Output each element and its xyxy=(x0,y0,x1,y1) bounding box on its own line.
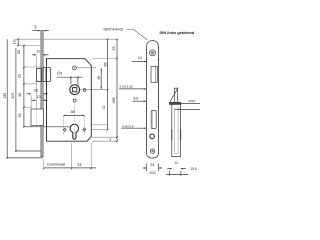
svg-text:12: 12 xyxy=(36,49,40,53)
svg-text:38: 38 xyxy=(70,110,74,114)
svg-text:22: 22 xyxy=(34,88,38,92)
svg-text:DIN links getekend: DIN links getekend xyxy=(160,30,195,35)
svg-text:50: 50 xyxy=(18,93,22,97)
svg-text:209: 209 xyxy=(11,93,15,99)
svg-text:8.5: 8.5 xyxy=(133,96,138,100)
svg-text:DIN74-Am5: DIN74-Am5 xyxy=(104,28,123,32)
svg-text:6.8∅3.8: 6.8∅3.8 xyxy=(122,124,134,128)
svg-text:24: 24 xyxy=(150,163,154,167)
svg-text:15.5: 15.5 xyxy=(190,167,196,171)
svg-text:35: 35 xyxy=(18,114,22,118)
svg-text:14: 14 xyxy=(138,56,142,60)
svg-text:53: 53 xyxy=(17,50,21,54)
svg-text:14: 14 xyxy=(174,161,178,165)
svg-text:32: 32 xyxy=(17,74,21,78)
svg-text:Doornmaat: Doornmaat xyxy=(47,163,65,167)
svg-text:13: 13 xyxy=(12,40,16,44)
svg-text:6 2∅3.25: 6 2∅3.25 xyxy=(120,84,133,88)
svg-text:∅9: ∅9 xyxy=(57,72,62,76)
svg-text:46: 46 xyxy=(97,76,101,80)
svg-text:235: 235 xyxy=(3,93,7,99)
svg-text:96: 96 xyxy=(104,62,108,66)
svg-text:165: 165 xyxy=(112,97,116,103)
svg-text:25: 25 xyxy=(112,46,116,50)
svg-text:33: 33 xyxy=(77,163,81,167)
svg-text:72: 72 xyxy=(102,105,106,109)
svg-text:D20: D20 xyxy=(150,171,156,175)
svg-text:13: 13 xyxy=(37,95,41,99)
svg-text:4±10: 4±10 xyxy=(189,99,196,103)
